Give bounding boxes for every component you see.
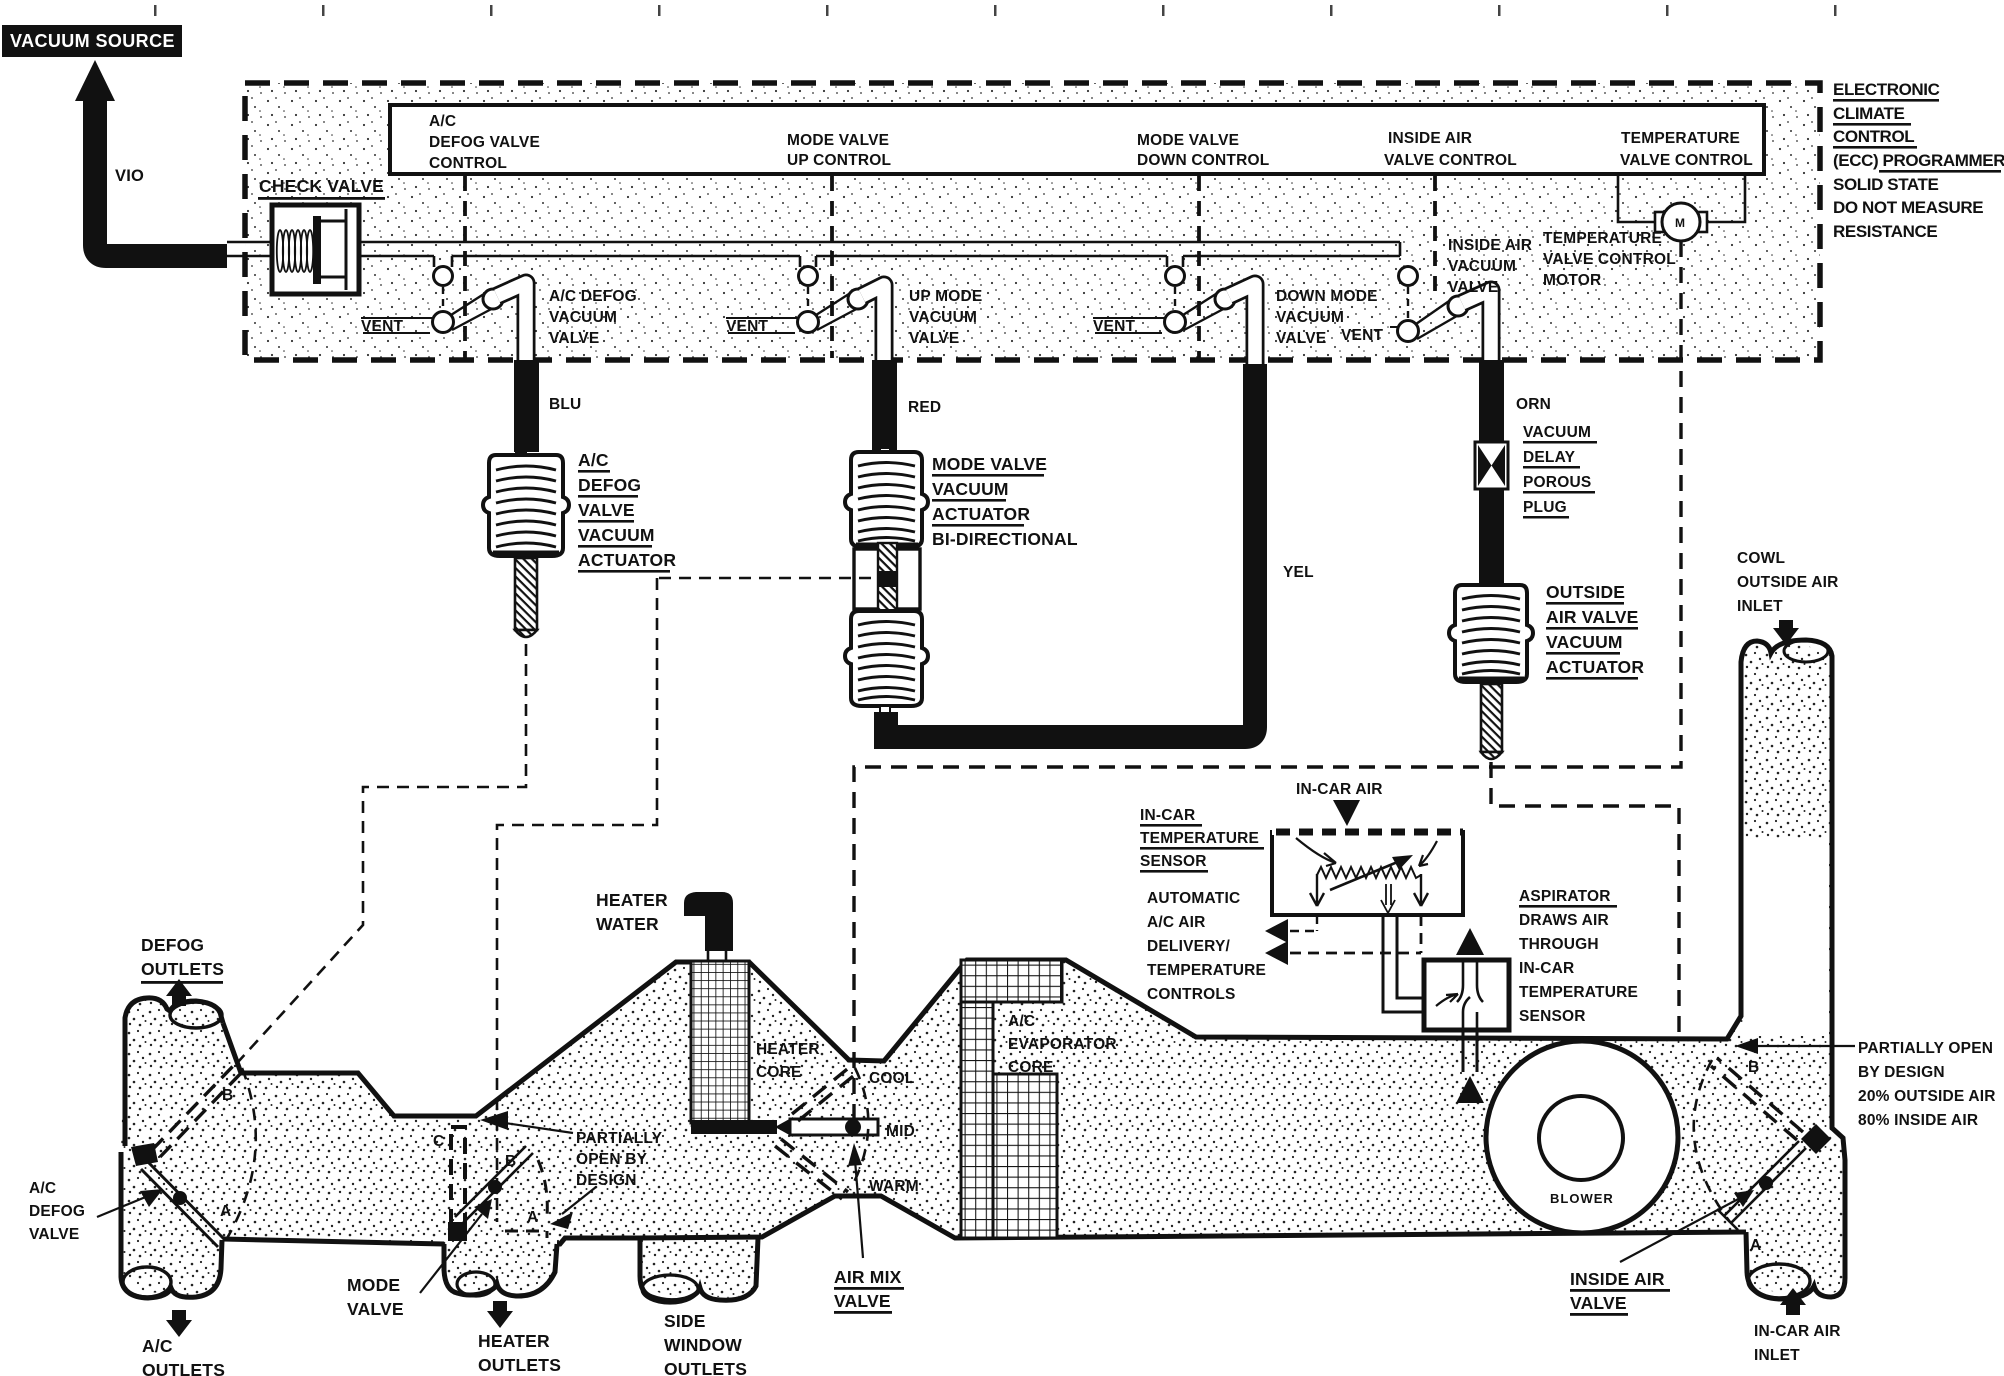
- svg-text:DRAWS AIR: DRAWS AIR: [1519, 912, 1609, 929]
- aspirator intake triangle top: [1456, 928, 1484, 955]
- svg-text:80% INSIDE AIR: 80% INSIDE AIR: [1858, 1112, 1978, 1129]
- side window outlets tube: [640, 1238, 758, 1303]
- svg-text:TEMPERATURE: TEMPERATURE: [1621, 130, 1740, 147]
- svg-text:INSIDE AIR: INSIDE AIR: [1570, 1269, 1665, 1289]
- svg-text:VACUUM: VACUUM: [1546, 632, 1623, 652]
- svg-text:CORE: CORE: [756, 1064, 802, 1081]
- svg-text:CONTROL: CONTROL: [429, 155, 507, 172]
- svg-text:DEFOG: DEFOG: [141, 935, 204, 955]
- svg-text:VENT: VENT: [726, 318, 768, 335]
- svg-text:DOWN CONTROL: DOWN CONTROL: [1137, 152, 1269, 169]
- svg-text:CLIMATE: CLIMATE: [1833, 104, 1905, 123]
- label automatic a/c air delivery temperature controls: [1147, 890, 1266, 1003]
- svg-text:PLUG: PLUG: [1523, 499, 1567, 516]
- svg-text:CHECK VALVE: CHECK VALVE: [259, 176, 384, 196]
- dashed section divider at up mode control: [830, 176, 834, 358]
- duct body stipple fill: [121, 643, 1845, 1298]
- svg-text:OUTLETS: OUTLETS: [142, 1360, 225, 1376]
- svg-text:VENT: VENT: [1341, 327, 1383, 344]
- heater core: [691, 961, 749, 1123]
- svg-text:VACUUM: VACUUM: [1523, 424, 1591, 441]
- svg-text:VALVE: VALVE: [909, 330, 959, 347]
- svg-text:VALVE CONTROL: VALVE CONTROL: [1620, 152, 1753, 169]
- svg-text:TEMPERATURE: TEMPERATURE: [1519, 984, 1638, 1001]
- svg-text:HEATER: HEATER: [756, 1041, 820, 1058]
- svg-text:TEMPERATURE: TEMPERATURE: [1543, 230, 1662, 247]
- svg-text:ORN: ORN: [1516, 396, 1551, 413]
- partially open right callout arrow: [1750, 1045, 1855, 1047]
- svg-text:A: A: [220, 1203, 231, 1220]
- in-car temperature sensor box: [1272, 832, 1463, 915]
- motor M temperature valve control: [1655, 203, 1707, 241]
- air mix valve MID bar: [691, 1117, 878, 1137]
- svg-text:DOWN MODE: DOWN MODE: [1276, 288, 1378, 305]
- svg-text:IN-CAR AIR: IN-CAR AIR: [1754, 1323, 1841, 1340]
- label air mix valve: [834, 1267, 904, 1314]
- mode valve callout arrow: [420, 1214, 482, 1293]
- svg-text:ACTUATOR: ACTUATOR: [578, 550, 676, 570]
- down mode vacuum valve: [1093, 256, 1255, 366]
- cowl outside air inlet opening: [1784, 640, 1828, 662]
- A/C defog vacuum valve: [361, 256, 526, 366]
- svg-text:COWL: COWL: [1737, 550, 1785, 567]
- svg-text:20% OUTSIDE AIR: 20% OUTSIDE AIR: [1858, 1088, 1996, 1105]
- svg-text:SENSOR: SENSOR: [1519, 1008, 1586, 1025]
- arrow in-car air down: [1333, 800, 1360, 826]
- svg-text:AIR VALVE: AIR VALVE: [1546, 607, 1639, 627]
- svg-text:VACUUM: VACUUM: [1448, 258, 1516, 275]
- defog outlet tube: [125, 998, 223, 1146]
- arrow defog outlets up: [166, 979, 192, 1006]
- svg-text:VALVE: VALVE: [578, 500, 635, 520]
- dashed control link from defog actuator to A/C defog door: [238, 644, 526, 1062]
- svg-text:A/C: A/C: [578, 450, 609, 470]
- svg-text:A/C: A/C: [1008, 1013, 1035, 1030]
- duct body top outline: [223, 640, 1845, 1299]
- svg-text:VALVE: VALVE: [29, 1226, 79, 1243]
- svg-text:EVAPORATOR: EVAPORATOR: [1008, 1036, 1117, 1053]
- aspirator intake triangle bottom: [1456, 1076, 1484, 1103]
- label defog outlets: [141, 935, 224, 984]
- label outside air valve vacuum actuator: [1546, 582, 1644, 680]
- inside air valve callout arrow: [1620, 1197, 1742, 1262]
- svg-text:RESISTANCE: RESISTANCE: [1833, 222, 1937, 241]
- svg-text:OUTSIDE AIR: OUTSIDE AIR: [1737, 574, 1839, 591]
- svg-text:VIO: VIO: [115, 167, 144, 185]
- svg-text:DEFOG: DEFOG: [578, 475, 641, 495]
- svg-text:SIDE: SIDE: [664, 1311, 706, 1331]
- aspirator tube below: [1463, 1030, 1477, 1072]
- partially open callout arrow to duct: [505, 1123, 573, 1133]
- inside air valve swing arc dashed: [1694, 1060, 1730, 1222]
- label cowl outside air inlet: [1737, 550, 1839, 615]
- inside air valve pivot: [1801, 1124, 1831, 1154]
- svg-text:VACUUM: VACUUM: [932, 479, 1009, 499]
- svg-text:IN-CAR AIR: IN-CAR AIR: [1296, 781, 1383, 798]
- wire VIO vacuum source thick line with up arrow: [75, 60, 227, 256]
- svg-text:VENT: VENT: [1093, 318, 1135, 335]
- svg-text:VALVE: VALVE: [1276, 330, 1326, 347]
- svg-text:THROUGH: THROUGH: [1519, 936, 1599, 953]
- A/C defog valve door A: [141, 1162, 225, 1247]
- svg-text:SENSOR: SENSOR: [1140, 853, 1207, 870]
- up mode vacuum valve: [726, 256, 884, 366]
- wire manifold vacuum pipe: [227, 242, 1400, 256]
- inside air valve door A: [1717, 1141, 1806, 1230]
- in-car air inlet tube opening: [1748, 1264, 1810, 1298]
- svg-text:VENT: VENT: [361, 318, 403, 335]
- svg-text:MID: MID: [886, 1123, 915, 1140]
- svg-text:A/C: A/C: [429, 113, 456, 130]
- svg-text:YEL: YEL: [1283, 564, 1314, 581]
- svg-text:HEATER: HEATER: [596, 890, 668, 910]
- svg-text:AUTOMATIC: AUTOMATIC: [1147, 890, 1240, 907]
- air mix valve COOL door dashed: [792, 1066, 857, 1121]
- svg-text:VALVE CONTROL: VALVE CONTROL: [1384, 152, 1517, 169]
- svg-text:M: M: [1675, 216, 1685, 230]
- svg-text:A/C: A/C: [29, 1180, 56, 1197]
- programmer control output box: [390, 105, 1764, 174]
- air mix valve callout arrow: [855, 1160, 863, 1258]
- svg-text:POROUS: POROUS: [1523, 474, 1591, 491]
- svg-text:TEMPERATURE: TEMPERATURE: [1140, 830, 1259, 847]
- label mode valve vacuum actuator bi-directional: [932, 454, 1078, 549]
- svg-text:CONTROL: CONTROL: [1833, 127, 1914, 146]
- wire BLU vacuum hose: [514, 360, 539, 452]
- svg-text:COOL: COOL: [869, 1070, 915, 1087]
- svg-text:A: A: [527, 1209, 538, 1226]
- registration tick marks: [154, 5, 1837, 16]
- svg-text:UP MODE: UP MODE: [909, 288, 982, 305]
- temperature valve control motor wiring: [1618, 176, 1745, 222]
- dashed control link from temperature motor to air mix door: [854, 241, 1681, 1124]
- svg-text:CORE: CORE: [1008, 1059, 1054, 1076]
- svg-text:DO NOT MEASURE: DO NOT MEASURE: [1833, 198, 1983, 217]
- partially open callout arrow to A1: [562, 1187, 596, 1214]
- svg-text:RED: RED: [908, 399, 941, 416]
- svg-text:WATER: WATER: [596, 914, 659, 934]
- actuator mode valve vacuum actuator bi-directional: [845, 448, 928, 713]
- ECC programmer dashed boundary box: [245, 83, 1820, 360]
- sensor output arrow 1: [1265, 915, 1317, 943]
- svg-text:INSIDE AIR: INSIDE AIR: [1448, 237, 1532, 254]
- heater water pipe: [684, 892, 733, 961]
- svg-text:CONTROLS: CONTROLS: [1147, 986, 1236, 1003]
- svg-text:OUTLETS: OUTLETS: [664, 1359, 747, 1376]
- arrow A/C outlets down: [166, 1310, 192, 1337]
- svg-text:AIR MIX: AIR MIX: [834, 1267, 902, 1287]
- label A/C defog valve vacuum actuator: [578, 450, 676, 573]
- A/C defog valve callout arrow: [97, 1196, 148, 1217]
- svg-text:DEFOG: DEFOG: [29, 1203, 85, 1220]
- label vacuum delay porous plug: [1523, 424, 1597, 519]
- A/C defog valve swing arc dashed: [226, 1068, 256, 1240]
- svg-text:SOLID STATE: SOLID STATE: [1833, 175, 1939, 194]
- svg-text:PARTIALLY: PARTIALLY: [576, 1130, 663, 1147]
- svg-text:INLET: INLET: [1737, 598, 1783, 615]
- svg-text:ELECTRONIC: ELECTRONIC: [1833, 80, 1940, 99]
- svg-text:OUTSIDE: OUTSIDE: [1546, 582, 1625, 602]
- svg-text:VACUUM SOURCE: VACUUM SOURCE: [10, 31, 175, 51]
- svg-text:A/C AIR: A/C AIR: [1147, 914, 1206, 931]
- svg-text:(ECC) PROGRAMMER: (ECC) PROGRAMMER: [1833, 151, 2004, 170]
- svg-text:A: A: [1750, 1237, 1761, 1254]
- svg-text:VALVE: VALVE: [1570, 1293, 1627, 1313]
- svg-text:VACUUM: VACUUM: [1276, 309, 1344, 326]
- inside air vacuum valve: [1390, 267, 1491, 367]
- svg-text:INLET: INLET: [1754, 1347, 1800, 1364]
- arrow in-car air inlet up: [1780, 1288, 1806, 1315]
- svg-text:WINDOW: WINDOW: [664, 1335, 742, 1355]
- svg-text:BY DESIGN: BY DESIGN: [1858, 1064, 1945, 1081]
- svg-text:VALVE: VALVE: [834, 1291, 891, 1311]
- svg-text:IN-CAR: IN-CAR: [1519, 960, 1574, 977]
- svg-text:ASPIRATOR: ASPIRATOR: [1519, 888, 1611, 905]
- svg-text:BLOWER: BLOWER: [1550, 1191, 1614, 1206]
- svg-text:WARM: WARM: [869, 1178, 919, 1195]
- dashed section divider at A/C defog control: [463, 176, 467, 358]
- svg-text:OUTLETS: OUTLETS: [478, 1355, 561, 1375]
- mode valve door A1 dashed: [505, 1160, 547, 1238]
- A/C evaporator core: [961, 960, 1062, 1238]
- air mix valve swing arc dashed: [850, 1068, 868, 1190]
- dashed line inside air valve control: [1433, 176, 1437, 300]
- A/C outlet tube: [121, 1152, 222, 1298]
- svg-text:MODE VALVE: MODE VALVE: [1137, 132, 1239, 149]
- aspirator pipe from sensor: [1383, 915, 1424, 1012]
- svg-text:VALVE: VALVE: [347, 1299, 404, 1319]
- svg-text:IN-CAR: IN-CAR: [1140, 807, 1195, 824]
- label partially open by design right: [1858, 1040, 1996, 1129]
- svg-text:DELAY: DELAY: [1523, 449, 1576, 466]
- mode valve door B: [455, 1146, 533, 1224]
- actuator A/C defog valve vacuum actuator: [483, 452, 569, 637]
- aspirator body: [1424, 960, 1509, 1030]
- arrow cowl inlet down: [1773, 620, 1799, 645]
- dashed control link from mode actuator to mode door: [497, 578, 871, 1222]
- wire YEL vacuum hose down-mode long loop: [886, 364, 1255, 737]
- svg-text:B: B: [505, 1153, 516, 1170]
- svg-text:VALVE CONTROL: VALVE CONTROL: [1543, 251, 1676, 268]
- mode valve pivot: [448, 1222, 467, 1241]
- wire RED vacuum hose: [872, 360, 897, 452]
- svg-text:DELIVERY/: DELIVERY/: [1147, 938, 1231, 955]
- blower: [1486, 1041, 1678, 1233]
- svg-text:OUTLETS: OUTLETS: [141, 959, 224, 979]
- duct body bottom outline: [223, 1196, 1746, 1244]
- heater outlets tube: [444, 1244, 557, 1296]
- svg-text:ACTUATOR: ACTUATOR: [1546, 657, 1644, 677]
- svg-text:VACUUM: VACUUM: [909, 309, 977, 326]
- svg-text:BI-DIRECTIONAL: BI-DIRECTIONAL: [932, 529, 1078, 549]
- svg-text:MODE VALVE: MODE VALVE: [787, 132, 889, 149]
- svg-text:UP CONTROL: UP CONTROL: [787, 152, 891, 169]
- svg-text:A/C DEFOG: A/C DEFOG: [549, 288, 637, 305]
- svg-text:INSIDE AIR: INSIDE AIR: [1388, 130, 1472, 147]
- label aspirator draws air through in-car temperature sensor: [1519, 888, 1638, 1025]
- svg-text:ACTUATOR: ACTUATOR: [932, 504, 1030, 524]
- A/C defog valve door B dashed: [152, 1063, 244, 1157]
- label inside air valve: [1570, 1269, 1670, 1316]
- check valve body: [272, 205, 359, 294]
- svg-text:VALVE: VALVE: [549, 330, 599, 347]
- vacuum source label box: [2, 25, 182, 57]
- sensor thermistor zigzag with arrow: [1296, 838, 1437, 913]
- svg-text:TEMPERATURE: TEMPERATURE: [1147, 962, 1266, 979]
- svg-text:DESIGN: DESIGN: [576, 1172, 637, 1189]
- vacuum delay porous plug: [1475, 442, 1508, 585]
- svg-text:MOTOR: MOTOR: [1543, 272, 1601, 289]
- svg-text:OPEN BY: OPEN BY: [576, 1151, 648, 1168]
- dashed section divider at down mode control: [1197, 176, 1201, 358]
- svg-text:B: B: [1748, 1059, 1759, 1076]
- svg-text:DEFOG VALVE: DEFOG VALVE: [429, 134, 540, 151]
- svg-text:BLU: BLU: [549, 396, 581, 413]
- sensor output arrow 2: [1265, 915, 1421, 965]
- A/C defog valve pivot: [131, 1143, 158, 1166]
- wire ORN vacuum hose: [1479, 360, 1504, 442]
- svg-text:VACUUM: VACUUM: [549, 309, 617, 326]
- svg-text:HEATER: HEATER: [478, 1331, 550, 1351]
- ECC programmer title text block: [1833, 80, 2004, 241]
- arrow heater outlets down: [487, 1301, 513, 1328]
- svg-text:PARTIALLY OPEN: PARTIALLY OPEN: [1858, 1040, 1993, 1057]
- svg-text:C: C: [433, 1133, 444, 1150]
- dashed control link from outside air actuator to inside air door: [1491, 762, 1679, 1040]
- svg-text:VALVE: VALVE: [1448, 279, 1498, 296]
- label in-car temperature sensor: [1140, 807, 1264, 873]
- svg-text:MODE VALVE: MODE VALVE: [932, 454, 1047, 474]
- svg-text:VACUUM: VACUUM: [578, 525, 655, 545]
- svg-text:A/C: A/C: [142, 1336, 173, 1356]
- mode valve door C dashed rectangle: [451, 1127, 465, 1237]
- actuator outside air valve vacuum actuator: [1449, 582, 1533, 759]
- cowl lower interior white: [1744, 838, 1829, 1036]
- svg-text:B: B: [222, 1087, 233, 1104]
- svg-text:MODE: MODE: [347, 1275, 400, 1295]
- inside air valve door B dashed: [1711, 1058, 1803, 1140]
- air mix valve WARM door dashed: [775, 1139, 848, 1199]
